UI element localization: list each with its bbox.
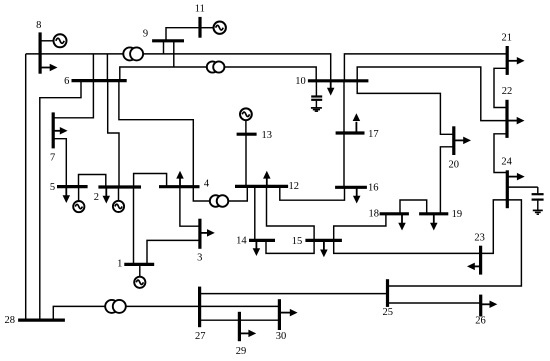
svg-text:18: 18: [369, 209, 380, 220]
svg-text:21: 21: [501, 33, 512, 44]
svg-text:15: 15: [292, 236, 303, 247]
wire 10-21: [344, 54, 507, 81]
bus 21: [506, 46, 509, 75]
svg-text:4: 4: [204, 179, 210, 190]
generator G8: [40, 34, 66, 47]
load bus 7: [53, 127, 67, 135]
bus 26: [479, 295, 482, 317]
wire 21-22: [494, 68, 507, 107]
svg-text:24: 24: [501, 157, 512, 168]
transformer 4-12: [210, 195, 229, 207]
wire 25-27: [200, 293, 388, 295]
svg-text:1: 1: [117, 258, 122, 269]
wire 2-6: [108, 81, 119, 187]
wire 10-22: [357, 67, 507, 121]
bus 30: [278, 299, 281, 330]
load bus 29: [239, 330, 256, 338]
bus 7: [52, 112, 55, 148]
wire 24-25: [388, 200, 522, 286]
wire 6-9 and 9-10 top row: [26, 41, 331, 81]
load bus 15: [320, 240, 328, 257]
svg-text:10: 10: [295, 76, 306, 87]
bus 14: [249, 239, 275, 242]
svg-text:11: 11: [195, 4, 205, 15]
generator G1: [134, 264, 145, 288]
load bus 14: [253, 240, 261, 256]
svg-text:16: 16: [368, 183, 379, 194]
load bus 16: [353, 187, 361, 203]
bus 6: [72, 79, 127, 82]
svg-text:8: 8: [36, 20, 41, 31]
bus 1: [124, 263, 154, 266]
bus 8: [38, 32, 41, 73]
load bus 18: [398, 214, 406, 231]
bus 15: [305, 239, 342, 242]
load bus 8: [40, 64, 57, 72]
bus 24: [506, 170, 509, 208]
svg-text:28: 28: [4, 315, 15, 326]
svg-text:13: 13: [262, 130, 273, 141]
wire 1-3: [147, 240, 200, 264]
wire 6-10 row: [120, 41, 316, 81]
load bus 30: [279, 309, 297, 317]
svg-text:17: 17: [368, 129, 379, 140]
wire 1-2: [133, 187, 135, 264]
wire 12-15: [267, 186, 315, 240]
bus 3: [198, 219, 201, 249]
wire 2-4: [134, 174, 167, 188]
bus 28: [18, 319, 65, 322]
svg-text:14: 14: [236, 235, 247, 246]
wire 6-7: [53, 81, 93, 118]
bus 17: [336, 131, 365, 134]
load bus 22: [507, 117, 525, 125]
bus 16: [335, 186, 367, 189]
wire 25-26: [388, 302, 481, 304]
svg-text:5: 5: [50, 182, 55, 193]
load bus 19: [430, 214, 438, 231]
load bus 17: [353, 113, 361, 133]
bus 9: [152, 39, 184, 42]
bus 19: [419, 212, 448, 215]
bus 2: [98, 185, 141, 188]
wire 2-5: [79, 175, 106, 188]
bus 27: [198, 287, 201, 328]
bus 11: [198, 17, 201, 38]
svg-text:22: 22: [502, 86, 513, 97]
wire 10-17 and 16-17: [343, 81, 345, 188]
ground bus 24 shunt: [533, 210, 543, 214]
svg-text:26: 26: [475, 315, 486, 326]
wire 4-6: [119, 81, 193, 187]
wire 18-19: [400, 200, 427, 214]
svg-text:25: 25: [382, 307, 393, 318]
wire 12-16: [280, 186, 345, 200]
svg-text:9: 9: [143, 29, 148, 40]
wire 9-11: [166, 28, 200, 41]
bus 29: [238, 312, 241, 341]
bus 25: [386, 279, 389, 307]
generator G5: [73, 187, 84, 213]
bus 23: [479, 246, 482, 275]
generator G2: [113, 187, 124, 212]
wire 4-12: [193, 186, 247, 201]
shunt capacitor bus 24: [507, 187, 543, 210]
wire 5-7: [53, 139, 66, 187]
load bus 23: [467, 263, 481, 271]
generator G11: [200, 22, 226, 34]
bus 13: [237, 133, 257, 136]
wire 6-28: [40, 81, 81, 320]
load bus 12: [263, 171, 271, 187]
wire 10-20 and 19-20: [357, 81, 454, 214]
transformer 6-10: [207, 61, 225, 72]
bus 20: [452, 126, 455, 155]
svg-text:29: 29: [236, 346, 247, 357]
wire 14-15: [266, 240, 314, 253]
svg-text:12: 12: [289, 181, 300, 192]
svg-text:7: 7: [50, 152, 55, 163]
bus 10: [308, 79, 369, 82]
wire 8-28: [25, 54, 27, 320]
bus 12: [235, 185, 288, 188]
load bus 2: [103, 187, 111, 204]
wire 12-14: [254, 186, 256, 240]
load bus 20: [454, 137, 471, 145]
bus 22: [505, 100, 508, 138]
svg-text:30: 30: [276, 331, 287, 342]
load bus 21: [507, 57, 524, 65]
wire 27-29 and 29-30: [200, 319, 280, 321]
load bus 26: [481, 301, 498, 309]
svg-text:3: 3: [197, 252, 202, 263]
load bus 5: [63, 187, 71, 203]
load bus 10: [327, 81, 335, 96]
load bus 24: [507, 173, 524, 181]
transformer 27-28: [105, 300, 126, 313]
wire 12-13: [245, 134, 247, 186]
wire 15-18: [334, 214, 386, 241]
wire 22-24: [494, 134, 507, 173]
svg-text:19: 19: [452, 209, 463, 220]
svg-text:6: 6: [64, 76, 69, 87]
wire 3-4: [180, 187, 200, 227]
bus 5: [57, 185, 88, 188]
wire 15-23 and 23-24: [334, 200, 508, 254]
load bus 4: [176, 171, 184, 187]
svg-text:23: 23: [474, 233, 485, 244]
transformer 6-9: [123, 47, 143, 60]
bus 18: [380, 212, 409, 215]
shunt capacitor bus 10: [311, 81, 322, 108]
svg-text:2: 2: [94, 192, 99, 203]
svg-text:27: 27: [195, 331, 206, 342]
ground bus 10 shunt: [311, 108, 322, 111]
wire 6-8: [92, 54, 94, 81]
bus 4: [159, 185, 200, 188]
generator G13: [240, 108, 252, 134]
wire 27-28 and 27-30: [53, 306, 279, 320]
load bus 3: [200, 229, 215, 237]
svg-text:20: 20: [448, 159, 459, 170]
